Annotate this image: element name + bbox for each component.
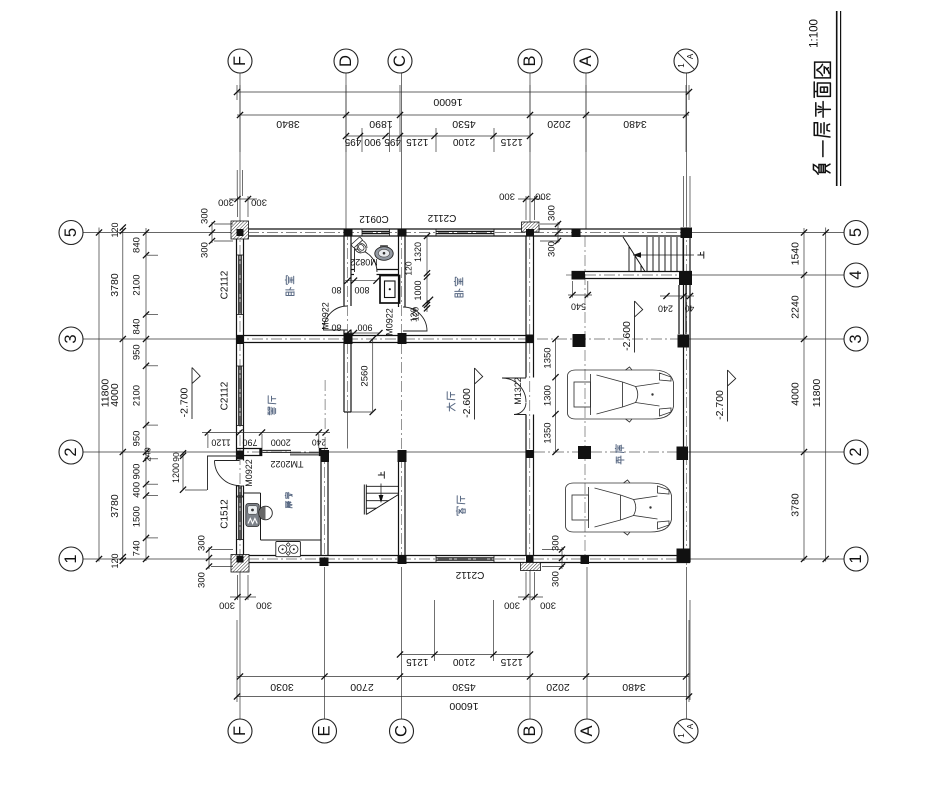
svg-text:3480: 3480 <box>622 681 646 693</box>
svg-text:300: 300 <box>200 242 211 258</box>
pier dim 300/300 right of B/1 <box>561 547 563 569</box>
grid bubble F top <box>228 49 252 73</box>
left fine chain 840/2100/840 / 950/2100/950 / 240/900/400/1500/740 <box>143 229 149 235</box>
staircase top-right (to upper floor) <box>623 237 683 272</box>
level mark -2.700 garage <box>728 370 736 422</box>
svg-text:950: 950 <box>132 344 143 360</box>
column 1A/3 <box>678 335 690 348</box>
svg-text:300: 300 <box>547 205 558 221</box>
dim 2560 dining partition <box>372 339 374 412</box>
svg-text:840: 840 <box>132 237 143 253</box>
svg-text:300: 300 <box>200 208 211 224</box>
grid bubble 2 left <box>59 440 83 464</box>
svg-text:3780: 3780 <box>109 494 121 518</box>
grid line E <box>324 567 326 719</box>
svg-text:5: 5 <box>62 228 80 237</box>
interior wall B <box>525 236 527 378</box>
svg-text:1540: 1540 <box>790 242 802 266</box>
svg-text:1200: 1200 <box>171 463 181 483</box>
bathroom bottom wall with door jambs <box>351 269 354 271</box>
svg-text:1215: 1215 <box>406 656 429 667</box>
column A/5 <box>572 229 581 238</box>
column F/3 <box>237 336 244 345</box>
grid bubble B top <box>518 49 542 73</box>
interior wall E (kitchen right) <box>320 456 322 556</box>
svg-text:E: E <box>316 725 334 736</box>
svg-text:900: 900 <box>132 464 143 480</box>
svg-text:1: 1 <box>677 63 686 68</box>
grid bubble D top <box>334 49 358 73</box>
svg-text:M0822: M0822 <box>350 257 378 267</box>
window C2112 bottom wall <box>435 556 437 563</box>
svg-text:80: 80 <box>331 323 341 333</box>
grid line 1/A <box>686 72 688 226</box>
pier dim 300/300 left of F/5 <box>211 222 213 243</box>
svg-text:4530: 4530 <box>452 118 476 130</box>
column C/1 <box>398 556 407 565</box>
column C/2 <box>398 450 407 462</box>
svg-text:2020: 2020 <box>546 681 570 693</box>
svg-text:4000: 4000 <box>790 382 802 406</box>
grid bubble A bottom <box>575 719 599 743</box>
hatched pier F/5 <box>231 221 249 239</box>
svg-text:M1322: M1322 <box>513 377 523 405</box>
toilet <box>351 237 370 256</box>
svg-text:1215: 1215 <box>500 136 523 147</box>
top axis dimension row 3840/1890/4530/2020/3480 <box>237 114 689 116</box>
pier dim 300+300 above F/5 <box>237 196 239 217</box>
svg-text:TM2022: TM2022 <box>270 459 303 469</box>
column A/2 <box>578 446 591 459</box>
car 2 in garage <box>566 480 672 535</box>
interior wall C lower (stair wall) <box>398 462 400 556</box>
room label hall <box>447 403 455 411</box>
bottom dimension extension lines <box>434 600 436 661</box>
door M0822 bathroom <box>355 249 378 272</box>
column C/5 <box>398 229 407 237</box>
pier dim 300/300 right of B/5 <box>557 222 559 243</box>
svg-text:300: 300 <box>535 191 551 202</box>
room label garage <box>616 456 624 464</box>
svg-text:1500: 1500 <box>132 506 143 527</box>
grid line 5 (horizontal) <box>83 232 234 234</box>
svg-text:300: 300 <box>219 600 235 611</box>
svg-text:2100: 2100 <box>452 656 475 667</box>
column C/3 <box>398 333 407 344</box>
svg-text:90: 90 <box>171 452 181 462</box>
door M1322 hall (wall B) <box>502 378 526 415</box>
svg-text:1000: 1000 <box>413 280 423 300</box>
svg-text:300: 300 <box>551 571 562 587</box>
shower cubicle <box>380 276 400 304</box>
svg-text:-2.600: -2.600 <box>461 388 473 418</box>
svg-text:2100: 2100 <box>452 136 475 147</box>
level mark -2.600 hall <box>475 368 483 420</box>
svg-text:495: 495 <box>344 136 361 147</box>
svg-text:950: 950 <box>132 431 143 447</box>
svg-text:300: 300 <box>197 572 208 588</box>
stair up arrow living room <box>380 484 382 502</box>
grid line D <box>345 72 347 229</box>
kitchen counter <box>244 492 261 494</box>
svg-text:16000: 16000 <box>433 96 462 108</box>
svg-text:4530: 4530 <box>452 681 476 693</box>
svg-text:-2.700: -2.700 <box>179 387 191 417</box>
svg-text:240: 240 <box>658 304 673 314</box>
hatched pier B/5 <box>522 222 540 232</box>
svg-text:C0912: C0912 <box>359 213 389 224</box>
column F/2 <box>237 451 244 460</box>
svg-text:B: B <box>521 725 539 736</box>
door M0922 bedroom2 (wall C) <box>403 307 427 331</box>
grid line 2 <box>83 451 237 453</box>
dim 240/40 at 1/A below grid4 <box>660 295 694 297</box>
right fine chain 1540/2240/4000/3780 <box>801 229 807 235</box>
bottom fine dimension row 1215/2100/1215 <box>400 654 530 656</box>
svg-text:80: 80 <box>331 285 341 295</box>
grid bubble 1 left <box>59 547 83 571</box>
svg-text:-2.700: -2.700 <box>714 390 726 420</box>
dim chain 1320/120/1000/120 bedroom2 side <box>426 236 428 312</box>
svg-text:C1512: C1512 <box>220 499 231 529</box>
svg-text:300: 300 <box>499 191 515 202</box>
interior wall D stub below grid3 (dining partition) <box>343 343 345 413</box>
dim 540 stair hall <box>572 281 574 298</box>
svg-text:A: A <box>686 53 695 59</box>
svg-text:40: 40 <box>685 304 695 314</box>
window C2112 top wall <box>435 229 437 236</box>
svg-text:1: 1 <box>847 554 865 563</box>
svg-text:800: 800 <box>354 285 369 295</box>
room label bedroom (left) <box>286 288 294 296</box>
svg-text:300: 300 <box>256 600 272 611</box>
svg-text:3030: 3030 <box>270 681 294 693</box>
stair hall wall at grid 4 <box>572 271 693 273</box>
svg-text:C2112: C2112 <box>455 569 484 580</box>
grid line 3 <box>83 338 237 340</box>
svg-text:3: 3 <box>62 334 80 343</box>
svg-text:1: 1 <box>677 733 686 738</box>
grid bubble F bottom <box>228 719 252 743</box>
grid bubble E bottom <box>313 719 337 743</box>
exterior wall left (grid F) <box>236 229 238 461</box>
column A/1 <box>581 556 590 565</box>
svg-text:2020: 2020 <box>547 118 571 130</box>
wall stub 1/A below grid4 <box>678 285 680 334</box>
grid bubble C top <box>388 49 412 73</box>
grid bubble 4 right <box>844 263 868 287</box>
svg-text:M0922: M0922 <box>244 459 254 487</box>
staircase living room <box>364 485 398 515</box>
exterior wall top (grid 5) <box>233 228 690 230</box>
top fine dimension row 495/900/495 and 1215/2100/1215 <box>346 135 530 137</box>
svg-text:3840: 3840 <box>276 118 300 130</box>
svg-text:300: 300 <box>547 241 558 257</box>
grid bubble 1/A top <box>674 49 698 73</box>
wash basin <box>381 246 388 249</box>
svg-text:F: F <box>231 726 249 736</box>
pier dim 300/300 left of F/1 <box>208 547 210 569</box>
left chain 120/3780/4000/3780/120 <box>120 224 126 230</box>
dim 1350/1300/1350 at wall B <box>555 339 557 452</box>
window C0912 top wall <box>361 229 363 236</box>
bottom wall-face extension at 1/A <box>689 600 691 700</box>
column D/5 <box>344 229 353 237</box>
level mark -2.600 stair lobby <box>635 301 643 353</box>
stair up arrow <box>633 254 694 256</box>
window C1512 left wall lower <box>237 496 244 498</box>
svg-text:120: 120 <box>404 261 414 275</box>
svg-text:2700: 2700 <box>350 681 374 693</box>
exterior wall right (grid 1/A) <box>683 229 685 563</box>
kitchen sink <box>246 504 259 527</box>
column E/1 <box>320 558 329 567</box>
grid bubble 3 left <box>59 327 83 351</box>
svg-text:400: 400 <box>132 482 143 498</box>
svg-text:C: C <box>393 725 411 737</box>
bottom overall dimension 16000 <box>237 696 689 698</box>
svg-text:C2112: C2112 <box>427 212 456 223</box>
column E/2 <box>321 450 329 462</box>
column 1A/2 <box>677 447 689 461</box>
svg-text:240: 240 <box>312 438 326 448</box>
level mark -2.700 outside left <box>192 368 200 420</box>
svg-text:M0922: M0922 <box>385 308 395 336</box>
sidelight piece below entry door <box>237 485 244 487</box>
column F/1 <box>237 556 244 563</box>
svg-text:11800: 11800 <box>811 379 823 408</box>
svg-text:2100: 2100 <box>132 274 143 295</box>
entry door M0922 with recess (wall F) <box>208 456 240 490</box>
svg-text:A: A <box>686 723 695 729</box>
label up (shang) at stair top-right <box>698 252 704 258</box>
grid bubble 3 right <box>844 327 868 351</box>
svg-text:2: 2 <box>62 447 80 456</box>
svg-text:4000: 4000 <box>109 383 121 407</box>
svg-text:300: 300 <box>551 535 562 551</box>
svg-text:A: A <box>578 725 596 736</box>
hatched pier F/1 <box>231 555 249 573</box>
grid bubble B bottom <box>518 719 542 743</box>
svg-text:1350: 1350 <box>543 422 554 443</box>
dim 120 ticks bedroom2 door <box>422 300 428 306</box>
grid line A <box>585 72 587 229</box>
svg-text:F: F <box>231 56 249 66</box>
svg-text:300: 300 <box>540 600 556 611</box>
kitchen wall at grid 2 <box>237 448 263 450</box>
svg-text:790: 790 <box>242 438 257 448</box>
grid line C <box>401 72 403 229</box>
svg-text:3780: 3780 <box>109 273 121 297</box>
svg-text:300: 300 <box>251 197 267 208</box>
dim 80/800 bathroom door <box>345 280 377 282</box>
left dimension chain lines <box>98 228 100 562</box>
svg-text:5: 5 <box>847 228 865 237</box>
right dimension chain lines <box>803 228 805 561</box>
svg-text:3480: 3480 <box>623 118 647 130</box>
window C2112 left wall upper <box>237 254 244 256</box>
door M0922 bedroom1 (wall D) <box>324 306 348 330</box>
car 1 in garage <box>568 367 674 422</box>
grid line 4 <box>692 274 844 276</box>
svg-text:120: 120 <box>110 553 120 568</box>
cooktop stove <box>276 542 301 557</box>
svg-text:300: 300 <box>504 600 520 611</box>
svg-text:120: 120 <box>110 222 120 237</box>
sliding door TM2022 (kitchen, grid 2) <box>262 450 319 455</box>
room label living room <box>456 507 465 515</box>
grid bubble 2 right <box>844 440 868 464</box>
svg-text:2000: 2000 <box>271 438 291 448</box>
dim 1120/790/2000/240 kitchen row <box>202 432 330 434</box>
top overall dimension 16000 <box>237 91 689 93</box>
svg-text:B: B <box>521 55 539 66</box>
svg-text:495: 495 <box>384 136 401 147</box>
svg-text:1: 1 <box>62 554 80 563</box>
exterior wall bottom (grid 1) <box>233 555 690 557</box>
column B/1 <box>526 556 534 563</box>
grid bubble 5 left <box>59 221 83 245</box>
grid bubble 1 right <box>844 547 868 571</box>
svg-text:2: 2 <box>847 447 865 456</box>
room label dining room <box>268 407 276 415</box>
column B/2 <box>526 450 534 458</box>
grid bubble C bottom <box>390 719 414 743</box>
title underline double rule <box>836 11 838 186</box>
svg-text:D: D <box>337 55 355 67</box>
svg-text:1120: 1120 <box>211 438 230 448</box>
interior wall D (bathroom/bedroom) <box>343 236 345 306</box>
svg-text:1215: 1215 <box>406 136 429 147</box>
grid bubble 1/A bottom <box>674 719 698 743</box>
svg-text:M0922: M0922 <box>321 302 331 330</box>
svg-text:1:100: 1:100 <box>809 19 821 48</box>
room label kitchen <box>286 501 292 507</box>
svg-text:840: 840 <box>132 319 143 335</box>
left overall 11800 <box>96 229 102 235</box>
svg-text:1350: 1350 <box>543 347 554 368</box>
svg-text:1215: 1215 <box>500 656 523 667</box>
pier dim 300+300 below F/1 <box>237 575 239 600</box>
svg-text:C2112: C2112 <box>220 381 231 410</box>
svg-text:1890: 1890 <box>369 118 393 130</box>
grid bubble A top <box>574 49 598 73</box>
column A/3 <box>573 334 586 347</box>
window C2112 left wall middle <box>237 365 244 367</box>
bottom axis dimension row 3030/2700/4530/2020/3480 <box>237 676 689 678</box>
svg-text:-2.600: -2.600 <box>621 321 633 351</box>
svg-text:3: 3 <box>847 334 865 343</box>
svg-text:900: 900 <box>364 136 381 147</box>
grid line B <box>529 72 531 229</box>
svg-text:120: 120 <box>409 308 419 322</box>
grid line 1 <box>83 558 234 560</box>
hatched pier B/1 <box>521 563 541 571</box>
svg-text:1320: 1320 <box>413 242 423 262</box>
right overall 11800 <box>823 229 829 235</box>
svg-text:2100: 2100 <box>132 385 143 406</box>
svg-text:3780: 3780 <box>790 493 802 517</box>
svg-text:300: 300 <box>218 197 234 208</box>
svg-text:740: 740 <box>132 540 143 556</box>
column A/4 <box>572 272 586 280</box>
grid line F (vertical axis F) <box>239 72 241 226</box>
svg-text:4: 4 <box>847 270 865 279</box>
dim 1200/90 entry recess <box>182 453 184 490</box>
pier dim 300+300 below B/1 <box>525 572 527 600</box>
svg-text:C: C <box>391 55 409 67</box>
title: basement floor plan 1:100 <box>813 164 830 174</box>
room label bedroom (right) <box>455 289 463 297</box>
column D/3 <box>344 333 353 344</box>
column 1A/4 <box>679 271 692 285</box>
svg-text:2560: 2560 <box>360 365 371 386</box>
pot beside sink <box>259 506 273 520</box>
column B/5 <box>526 229 534 237</box>
svg-text:240: 240 <box>143 447 153 461</box>
grid bubble 5 right <box>844 221 868 245</box>
column F/5 <box>237 229 244 236</box>
svg-text:A: A <box>577 55 595 66</box>
dim 80/900 at grid3 bedroom1 <box>345 332 380 334</box>
top dimension extension lines <box>239 85 241 152</box>
column B/3 <box>526 335 534 344</box>
svg-text:16000: 16000 <box>449 700 478 712</box>
svg-text:2240: 2240 <box>790 295 802 319</box>
top wall-face extension lines at F and 1/A <box>236 170 238 196</box>
interior wall C upper (bathroom right) <box>398 236 400 307</box>
pier dim 300+300 above B/5 <box>525 196 527 220</box>
column 1A/1 <box>677 549 691 563</box>
column 1A/5 <box>681 228 693 239</box>
svg-text:540: 540 <box>571 302 586 312</box>
svg-text:1300: 1300 <box>543 385 554 406</box>
svg-text:C2112: C2112 <box>220 270 231 299</box>
grid line E upper segment <box>324 380 326 448</box>
svg-text:900: 900 <box>357 323 372 333</box>
label up (shang) living room stair <box>378 472 384 478</box>
svg-text:300: 300 <box>197 535 208 551</box>
interior wall at grid 3 <box>237 335 535 337</box>
